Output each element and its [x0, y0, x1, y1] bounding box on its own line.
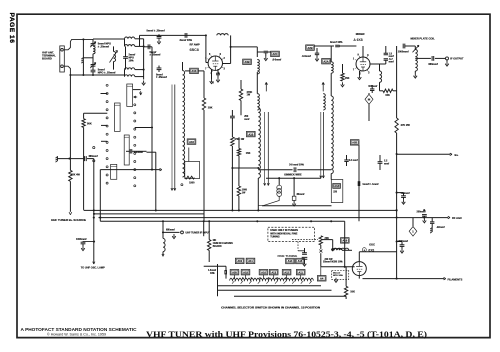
svg-text:A20: A20 — [232, 270, 237, 274]
svg-text:3-9 mmf 10%: 3-9 mmf 10% — [289, 164, 304, 167]
svg-text:1.5mmf: 1.5mmf — [208, 270, 216, 272]
svg-text:TUNING: TUNING — [270, 236, 279, 239]
svg-text:OSC: OSC — [369, 242, 375, 246]
svg-text:TO UHF OSC. LAMP: TO UHF OSC. LAMP — [81, 267, 105, 270]
svg-text:10K: 10K — [350, 291, 355, 294]
svg-text:A13: A13 — [271, 270, 276, 274]
svg-text:A11: A11 — [248, 259, 253, 263]
svg-text:A3B: A3B — [244, 60, 249, 64]
svg-text:15K: 15K — [246, 152, 251, 155]
svg-text:A13: A13 — [334, 184, 339, 188]
svg-text:A18: A18 — [243, 270, 248, 274]
svg-text:220 1W: 220 1W — [325, 259, 334, 261]
svg-text:GIMMICK WIRE: GIMMICK WIRE — [284, 174, 302, 177]
svg-text:A16: A16 — [189, 140, 194, 144]
svg-text:A19: A19 — [342, 239, 347, 243]
svg-text:NPO ± .25mmf: NPO ± .25mmf — [98, 70, 116, 74]
svg-text:© Howard W. Sams & Co., Inc. 1: © Howard W. Sams & Co., Inc. 1959 — [47, 332, 106, 336]
svg-text:MIXER PLATE COIL: MIXER PLATE COIL — [411, 37, 436, 41]
svg-text:10%: 10% — [210, 273, 215, 275]
svg-text:CHANNEL SELECTOR SWITCH SHOWN: CHANNEL SELECTOR SWITCH SHOWN IN CHANNEL… — [221, 307, 320, 310]
svg-text:1000mmf: 1000mmf — [398, 240, 409, 243]
svg-text:15K: 15K — [345, 77, 350, 80]
svg-text:mmf: mmf — [389, 61, 394, 64]
svg-text:A2A: A2A — [323, 59, 328, 63]
svg-text:680mmf: 680mmf — [89, 155, 98, 158]
svg-text:A10: A10 — [237, 259, 242, 263]
svg-text:3mmf 10%: 3mmf 10% — [330, 41, 343, 44]
svg-text:A14: A14 — [288, 259, 293, 263]
svg-text:100mmf: 100mmf — [368, 85, 377, 88]
svg-text:PAGE 16: PAGE 16 — [8, 13, 15, 44]
svg-text:680mmf: 680mmf — [428, 63, 438, 66]
svg-text:± .25mmf: ± .25mmf — [98, 45, 109, 49]
svg-text:.22mmf: .22mmf — [436, 226, 445, 229]
svg-text:RF AGC: RF AGC — [452, 216, 462, 220]
svg-text:10K: 10K — [208, 106, 213, 110]
svg-text:FINE TUNING: FINE TUNING — [278, 254, 298, 258]
svg-text:A2C: A2C — [272, 52, 277, 56]
svg-text:47K 2W: 47K 2W — [401, 123, 411, 127]
svg-text:mmf: mmf — [244, 118, 249, 121]
svg-text:A 6X8: A 6X8 — [353, 38, 362, 42]
svg-text:1000: 1000 — [242, 190, 248, 192]
svg-text:1000mmf: 1000mmf — [76, 238, 87, 241]
svg-text:A2B: A2B — [352, 141, 357, 145]
svg-text:RF AMP: RF AMP — [190, 42, 200, 46]
svg-text:± .25mmf: ± .25mmf — [150, 54, 161, 57]
svg-text:B+: B+ — [455, 153, 459, 157]
svg-text:10%: 10% — [129, 59, 135, 62]
svg-text:A11: A11 — [298, 270, 303, 274]
svg-text:A4: A4 — [320, 276, 324, 280]
svg-text:A15: A15 — [298, 259, 303, 263]
svg-text:.6-5mmf: .6-5mmf — [272, 59, 281, 62]
svg-text:6BC8: 6BC8 — [190, 48, 199, 52]
svg-text:BOARD: BOARD — [42, 57, 52, 61]
svg-text:80mmf: 80mmf — [297, 193, 305, 196]
svg-text:IF OUTPUT: IF OUTPUT — [450, 57, 464, 60]
svg-text:3mmf 10%: 3mmf 10% — [180, 39, 193, 42]
svg-text:A1K: A1K — [191, 69, 196, 73]
svg-text:A2B: A2B — [307, 46, 312, 50]
svg-text:NPO 10%: NPO 10% — [333, 275, 343, 277]
svg-text:1000mmf: 1000mmf — [398, 51, 409, 54]
svg-text:5mmf ± .25mmf: 5mmf ± .25mmf — [147, 30, 165, 33]
svg-text:A10: A10 — [248, 132, 253, 136]
svg-text:50K: 50K — [87, 122, 92, 126]
svg-text:UHF TUNER IF INPUT: UHF TUNER IF INPUT — [186, 231, 211, 234]
svg-text:1500: 1500 — [189, 182, 195, 185]
svg-text:mmf: mmf — [384, 162, 389, 165]
svg-text:FILAMENTS: FILAMENTS — [448, 278, 463, 282]
svg-text:A12: A12 — [284, 270, 289, 274]
svg-text:BOARD: BOARD — [213, 245, 222, 248]
svg-text:470K 1W: 470K 1W — [234, 138, 245, 141]
svg-text:12K 4W: 12K 4W — [71, 174, 81, 177]
svg-text:UHF TUNER B+ SOURCE: UHF TUNER B+ SOURCE — [51, 218, 86, 222]
svg-text:2.2 mmf: 2.2 mmf — [349, 159, 358, 162]
svg-text:35mmf: 35mmf — [333, 273, 340, 275]
svg-text:A16: A16 — [261, 270, 266, 274]
svg-text:680mmf: 680mmf — [166, 230, 175, 232]
svg-text:15K: 15K — [385, 94, 390, 97]
svg-text:MIXER: MIXER — [356, 32, 365, 36]
svg-text:A PHOTOFACT STANDARD NOTATION: A PHOTOFACT STANDARD NOTATION SCHEMATIC — [21, 327, 138, 332]
svg-text:VHF TUNER with UHF Provisions: VHF TUNER with UHF Provisions 76-10525-3… — [146, 330, 427, 339]
svg-text:± .25mmf: ± .25mmf — [156, 76, 167, 79]
svg-text:.6-5mmf: .6-5mmf — [302, 55, 311, 58]
svg-text:1mmf ± .1mmf: 1mmf ± .1mmf — [362, 183, 378, 186]
